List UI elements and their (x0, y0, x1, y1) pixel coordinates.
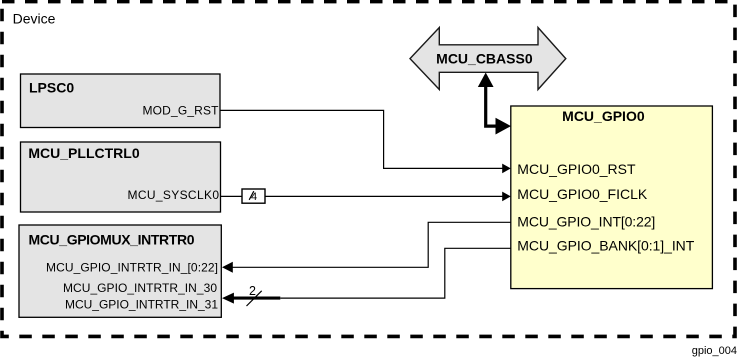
bus width slash 2 on wire (247, 284, 262, 306)
svg-text:MCU_CBASS0: MCU_CBASS0 (436, 51, 533, 67)
bus MCU_CBASS0 (double arrow) (410, 28, 566, 90)
bus width box /4 on MCU_SYSCLK0 (242, 189, 265, 203)
wire MCU_SYSCLK0 to MCU_GPIO0_FICLK (221, 192, 511, 202)
connector MCU_CBASS0 to MCU_GPIO0 (thick bidirectional) (478, 73, 511, 135)
svg-text:MCU_GPIO_INTRTR_IN_31: MCU_GPIO_INTRTR_IN_31 (65, 297, 218, 311)
svg-text:MCU_PLLCTRL0: MCU_PLLCTRL0 (28, 145, 139, 161)
svg-text:2: 2 (249, 284, 256, 298)
wire MCU_GPIO_BANK[0:1]_INT to MCU_GPIO_INTRTR_IN_30/31 (222, 248, 511, 303)
svg-text:MCU_GPIO_INT[0:22]: MCU_GPIO_INT[0:22] (517, 214, 655, 230)
svg-text:MOD_G_RST: MOD_G_RST (143, 103, 220, 117)
svg-text:MCU_GPIOMUX_INTRTR0: MCU_GPIOMUX_INTRTR0 (29, 231, 195, 247)
svg-text:MCU_GPIO_INTRTR_IN_30: MCU_GPIO_INTRTR_IN_30 (63, 281, 217, 295)
block LPSC0 (21, 74, 221, 128)
svg-text:MCU_GPIO_BANK[0:1]_INT: MCU_GPIO_BANK[0:1]_INT (517, 237, 694, 253)
wire MOD_G_RST to MCU_GPIO0_RST (220, 110, 511, 173)
wire MCU_GPIO_INT[0:22] to MCU_GPIO_INTRTR_IN_[0:22] (222, 222, 511, 272)
block MCU_PLLCTRL0 (21, 142, 221, 212)
svg-text:Device: Device (13, 11, 56, 27)
svg-text:MCU_GPIO_INTRTR_IN_[0:22]: MCU_GPIO_INTRTR_IN_[0:22] (46, 261, 218, 275)
svg-text:MCU_GPIO0: MCU_GPIO0 (562, 108, 645, 124)
block MCU_GPIO0 (511, 106, 713, 289)
svg-text:MCU_SYSCLK0: MCU_SYSCLK0 (128, 188, 220, 202)
svg-text:4: 4 (251, 191, 257, 203)
svg-text:MCU_GPIO0_RST: MCU_GPIO0_RST (517, 161, 636, 177)
svg-text:MCU_GPIO0_FICLK: MCU_GPIO0_FICLK (517, 186, 648, 202)
svg-text:LPSC0: LPSC0 (29, 80, 74, 96)
svg-text:gpio_004: gpio_004 (692, 345, 737, 357)
block MCU_GPIOMUX_INTRTR0 (19, 225, 221, 317)
